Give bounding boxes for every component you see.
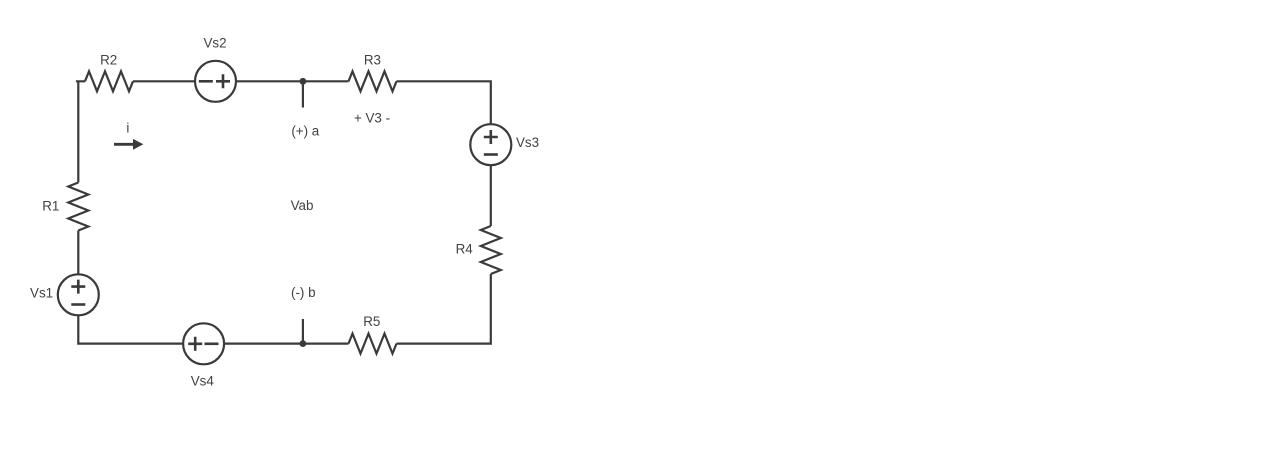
svg-text:i: i bbox=[126, 121, 129, 136]
svg-text:+ V3 -: + V3 - bbox=[354, 111, 390, 126]
svg-text:(+) a: (+) a bbox=[291, 123, 319, 138]
resistor R5 bbox=[349, 334, 397, 354]
resistor R4 bbox=[481, 226, 501, 274]
wire R2 to Vs2 bbox=[133, 80, 195, 82]
svg-text:R5: R5 bbox=[363, 314, 380, 329]
voltage source Vs3 bbox=[470, 124, 511, 165]
wire Vs3 to R4 bbox=[490, 165, 492, 226]
svg-text:Vs2: Vs2 bbox=[203, 36, 226, 51]
svg-text:R2: R2 bbox=[100, 52, 117, 67]
svg-text:Vs1: Vs1 bbox=[30, 286, 53, 301]
node b tick bbox=[302, 319, 304, 344]
svg-text:R1: R1 bbox=[42, 198, 59, 213]
svg-text:Vs4: Vs4 bbox=[191, 374, 215, 389]
svg-text:Vs3: Vs3 bbox=[516, 135, 539, 150]
wire Vs4 to node b bbox=[224, 343, 303, 345]
current arrow i bbox=[114, 139, 143, 150]
wire Vs2 to node a bbox=[236, 80, 303, 82]
wire left rail upper bbox=[76, 81, 85, 182]
resistor R1 bbox=[68, 183, 88, 231]
svg-text:R3: R3 bbox=[364, 53, 381, 68]
voltage source Vs1 bbox=[58, 274, 99, 315]
svg-text:R4: R4 bbox=[456, 242, 474, 257]
wire R4 to bottom-right corner to R5 bbox=[397, 274, 491, 344]
wire R1 to Vs1 bbox=[77, 231, 79, 275]
wire R3 to top-right corner to Vs3 bbox=[397, 81, 491, 124]
node a junction dot bbox=[300, 78, 307, 85]
node a tick bbox=[302, 81, 304, 107]
svg-text:(-) b: (-) b bbox=[291, 285, 316, 300]
wire Vs1 to bottom-left corner and to Vs4 bbox=[78, 315, 183, 343]
wire node b to R5 bbox=[303, 343, 349, 345]
wire node a to R3 bbox=[303, 80, 349, 82]
node b junction dot bbox=[300, 340, 307, 347]
resistor R2 bbox=[85, 71, 133, 91]
svg-text:Vab: Vab bbox=[291, 198, 314, 213]
resistor R3 bbox=[349, 71, 397, 91]
voltage source Vs2 bbox=[195, 61, 236, 102]
voltage source Vs4 bbox=[183, 323, 224, 364]
